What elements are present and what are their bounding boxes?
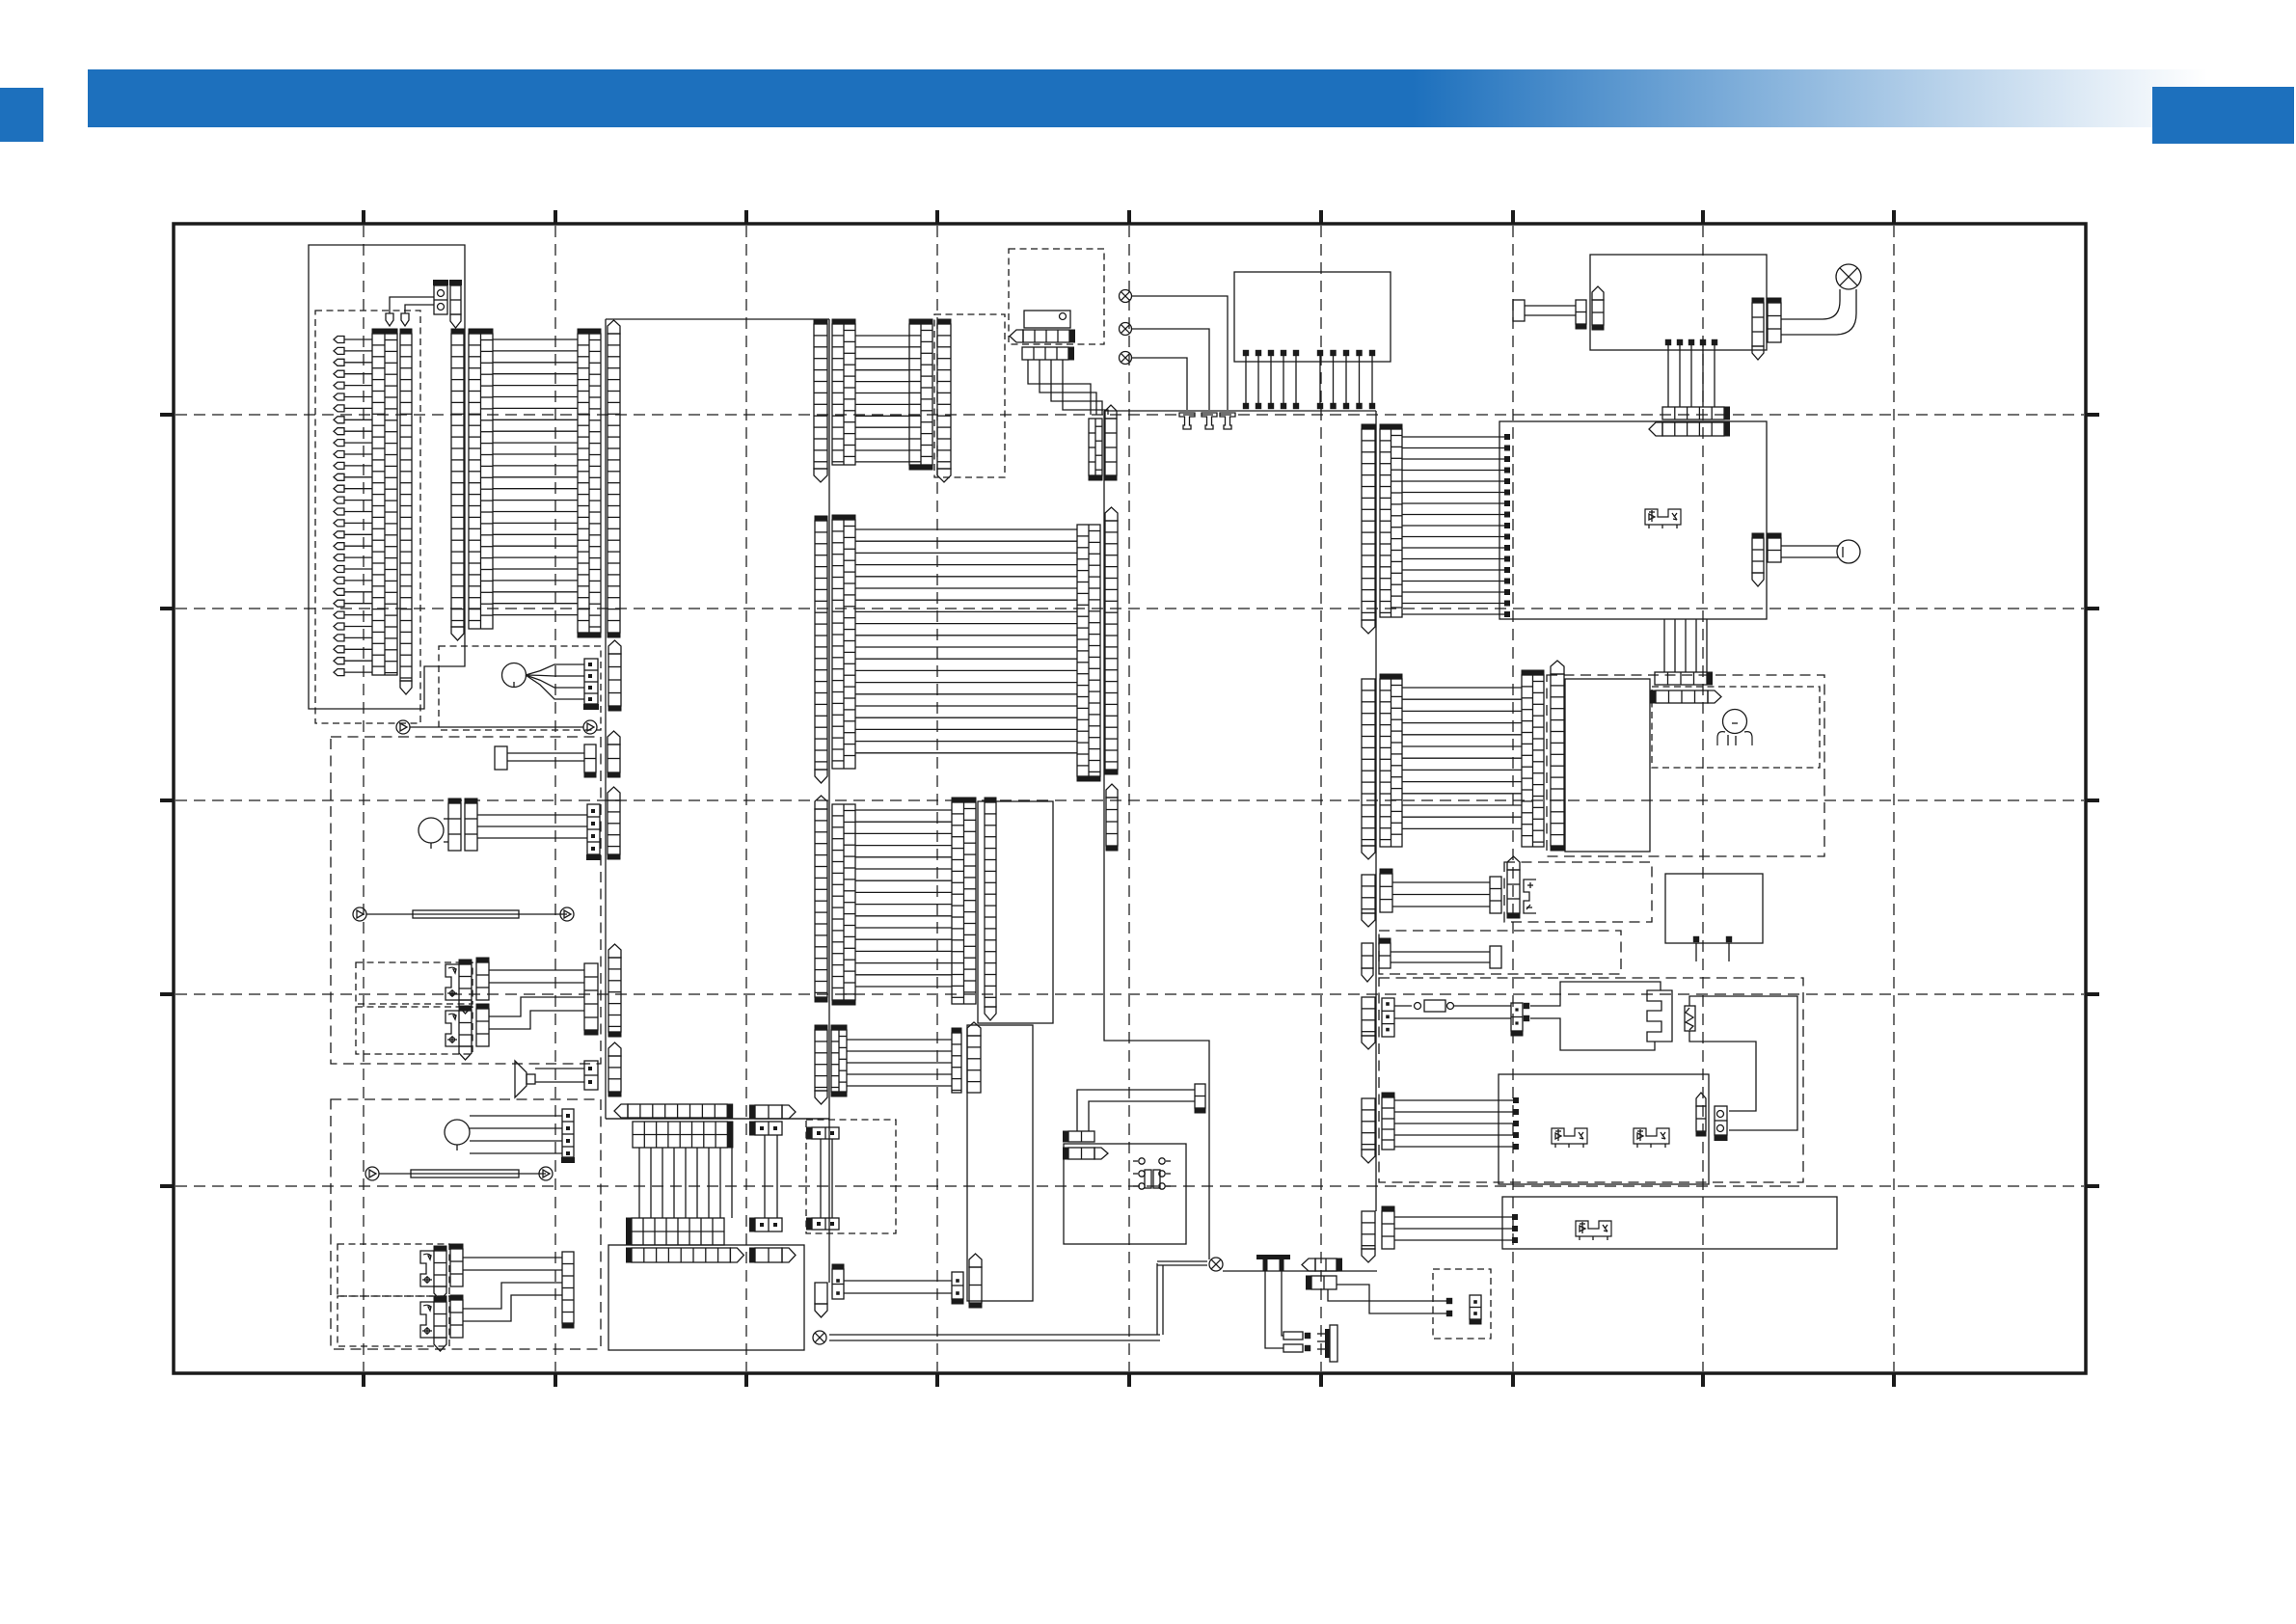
horn HN1 — [515, 1061, 527, 1097]
connector CN11 (2-col) — [832, 324, 855, 465]
connector CN25 (2-col) — [832, 520, 855, 769]
control unit U3 — [1499, 421, 1767, 619]
instrument box — [978, 801, 1053, 1023]
lamp L2 — [1120, 323, 1132, 336]
wire L3 — [1132, 358, 1187, 410]
icon relay in U3 — [1645, 509, 1681, 525]
header H9 — [755, 1105, 782, 1119]
wires U3 bottom — [1663, 619, 1665, 672]
ground bolt G3 — [1220, 413, 1235, 429]
dashed box H — [1547, 675, 1824, 856]
connector CN52 — [584, 963, 598, 1030]
connector CN32 — [815, 809, 827, 997]
connector CN59 — [562, 1252, 574, 1323]
header H17 — [1315, 1259, 1337, 1271]
control unit U2 — [1590, 255, 1767, 350]
connector CN38 — [952, 1033, 961, 1093]
connector CN43 — [608, 744, 620, 772]
lamp L7 — [813, 1331, 826, 1344]
connector CN26 (2-col) — [1077, 525, 1100, 776]
connector CN41 — [952, 1272, 963, 1299]
dashed equipment box K — [331, 1099, 601, 1349]
unit U3 left pads and wires — [1504, 434, 1510, 440]
flasher F4 — [420, 1302, 434, 1338]
header bar — [88, 69, 2296, 127]
header H6 (2-row) — [633, 1122, 727, 1148]
inline resistor — [1394, 1005, 1412, 1007]
connector CN24 — [815, 521, 827, 770]
pads N — [1446, 1298, 1452, 1304]
connector CN55 — [608, 1056, 621, 1092]
wire resistor loop b — [1689, 1031, 1756, 1111]
lamp L6 — [445, 1120, 470, 1145]
control unit U1 — [1234, 272, 1391, 362]
comb connector — [1325, 1329, 1330, 1358]
dashed box L2 — [806, 1120, 896, 1233]
header H18 — [1311, 1276, 1337, 1289]
header H15 — [1068, 1131, 1094, 1142]
lamp L3 — [1120, 352, 1132, 365]
wire CN19 to L4 b — [1781, 289, 1856, 335]
wire bundle G (20 wires) — [855, 528, 1077, 530]
connector CN28 — [1362, 679, 1375, 846]
connector CN41b — [969, 1267, 982, 1303]
knob K1 — [1837, 540, 1860, 563]
connector CN68 — [1362, 997, 1375, 1036]
wires H15 up — [1077, 1090, 1195, 1131]
connector CN27b — [1106, 798, 1118, 846]
connector CN40 — [832, 1269, 844, 1299]
ground bolt G5 — [1280, 1259, 1284, 1271]
connector CN69 — [1382, 998, 1394, 1037]
lamp L5 — [419, 818, 444, 843]
connector CN36 — [815, 1030, 827, 1091]
connector CN16 — [1576, 300, 1586, 324]
connector CN75 (3-cell) — [1382, 1211, 1394, 1249]
connector CN5 (2-col) — [469, 334, 493, 629]
connector CN12 (2-col) — [909, 324, 932, 465]
connector CN63 — [1490, 877, 1501, 913]
wire G5 down — [1282, 1271, 1283, 1336]
dashed equipment box J — [331, 737, 601, 1064]
connector CN70 — [1511, 1003, 1523, 1031]
connector CN1 strip — [450, 285, 461, 314]
connector CN71 — [1696, 1106, 1706, 1131]
connector CN58b — [450, 1300, 463, 1338]
connector CN3 — [400, 334, 412, 681]
connector CN48 — [459, 964, 472, 1000]
connector CN58 — [434, 1302, 446, 1338]
accessory box — [1064, 1144, 1186, 1244]
connector CN51 — [476, 1009, 489, 1046]
wires horn — [535, 1068, 584, 1069]
connector CN76 — [1362, 1211, 1375, 1249]
connector CN49 — [476, 962, 489, 1000]
connector CN18 — [1752, 303, 1764, 346]
dashed harness box A — [315, 311, 420, 723]
unit U4 pads and wires — [1513, 1097, 1519, 1103]
connector CN42 — [584, 744, 596, 772]
connector CN72 — [1715, 1106, 1727, 1135]
bolt B1 — [1513, 300, 1525, 321]
connector CN15 — [1105, 419, 1117, 475]
header H16 — [1068, 1148, 1094, 1159]
lamp L8 — [1209, 1258, 1223, 1271]
connector CN7 — [608, 334, 620, 633]
wire L2 — [1132, 329, 1209, 410]
connector CN53 — [608, 958, 621, 1032]
relay unit box — [1499, 1074, 1709, 1184]
gauge box — [967, 1025, 1033, 1301]
header H12 — [755, 1248, 782, 1262]
header H11 — [755, 1218, 782, 1232]
switch box SW1 — [1565, 679, 1650, 852]
connector CN19 — [1768, 303, 1781, 342]
drawing frame — [174, 224, 2086, 1373]
wires H18 right — [1328, 1289, 1446, 1301]
ground bus — [1223, 1270, 1377, 1272]
wire relay to tag 1 — [390, 297, 434, 313]
dashed box flasher F3 — [338, 1244, 449, 1296]
header H8 — [632, 1248, 730, 1262]
tag terminal T1 — [386, 313, 393, 326]
connector CN27 — [1105, 521, 1118, 770]
connector CN57 — [434, 1251, 446, 1286]
relay R2 body — [1024, 311, 1070, 328]
wire bundle A (26 wires) — [493, 338, 578, 340]
harness trunk right — [1375, 411, 1377, 1211]
connector CN74 — [1362, 1098, 1375, 1150]
connector CN30 (2-col) — [1522, 675, 1544, 847]
header H7 (2-row) — [632, 1218, 724, 1245]
motor M1 — [502, 663, 527, 688]
heater comb element — [1647, 990, 1672, 1042]
fuse FU1 — [1283, 1332, 1303, 1340]
wide control box U5 — [1502, 1197, 1837, 1249]
wire resistor loop a — [1689, 996, 1797, 1130]
connector CN45 — [465, 803, 477, 851]
wire CN19 to L4 a — [1781, 289, 1840, 319]
ground bolt G2 — [1202, 413, 1217, 429]
icon relay U4b — [1634, 1128, 1669, 1144]
ground bolt G4 — [1263, 1259, 1268, 1271]
center harness box — [606, 319, 829, 1283]
connector CN13 — [937, 324, 951, 469]
cable link C3 — [365, 1167, 379, 1180]
header H14 — [812, 1218, 839, 1230]
cable W1 riser — [1156, 1263, 1158, 1335]
wires flashers to CN52 — [489, 969, 584, 971]
cable W1 — [829, 1334, 1160, 1336]
header H1 — [1662, 407, 1724, 420]
wires relay R2 to CN14 — [1028, 360, 1091, 415]
terminal tags column (30 pins) — [334, 337, 344, 343]
wire to heater hot — [1530, 982, 1661, 1006]
lamp L4 — [1836, 264, 1861, 289]
header H10 — [755, 1122, 782, 1135]
dashed box flasher F2 — [356, 1007, 473, 1054]
wire bundle B (12 wires) — [855, 335, 909, 337]
connector CN35 — [985, 802, 996, 1007]
wire G4 down — [1265, 1271, 1283, 1348]
wire relay to tag 2 — [405, 305, 434, 313]
grid horizontal dashed lines with ticks — [176, 414, 2084, 416]
wire bundle Ib (5 wires) — [847, 1039, 952, 1041]
connector CN73 (5-cell) — [1382, 1097, 1394, 1150]
person icon — [1723, 710, 1747, 734]
flasher F3 — [420, 1251, 434, 1286]
wires O2 — [1392, 881, 1490, 883]
wire bundle I (16 wires) — [855, 809, 952, 811]
connector CN56 — [562, 1109, 574, 1157]
unit U2 pins — [1665, 339, 1671, 345]
connector CN60 — [815, 1283, 827, 1304]
icon relay U4a — [1552, 1128, 1587, 1144]
connector CN66 — [1362, 875, 1375, 913]
grid vertical dashed lines with ticks — [363, 226, 365, 1371]
sensor box O1 — [1665, 874, 1763, 943]
relay R1 block — [434, 285, 447, 314]
dashed box O2 — [1504, 862, 1652, 922]
flasher F1 — [446, 964, 459, 1000]
tag terminal T2 — [401, 313, 409, 326]
connector CN64 — [1507, 870, 1520, 913]
connector CN17 — [1592, 300, 1604, 325]
relay R2 header 2 — [1022, 347, 1068, 360]
wire to knob — [1781, 545, 1838, 547]
pads O1 — [1693, 936, 1699, 942]
flasher F2 — [446, 1011, 459, 1046]
connector CN8 — [584, 659, 598, 704]
bus riser — [1104, 411, 1209, 1259]
dashed box flasher F1 — [356, 962, 473, 1004]
cable link C1 — [396, 720, 410, 734]
connector CN37 (2-col) — [831, 1030, 847, 1092]
wires H10 to H11 — [764, 1135, 766, 1218]
cable C4 — [1391, 951, 1490, 953]
unit U5 pads and wires — [1512, 1214, 1518, 1220]
junction block JB outline — [309, 245, 465, 709]
header H13 — [812, 1127, 839, 1139]
lamp L1 — [1120, 290, 1132, 303]
connector CN22 — [1752, 538, 1764, 573]
connector CN21 (2-col) — [1380, 429, 1402, 617]
wires motor to CN8 — [526, 664, 584, 675]
connector CN67 — [1379, 943, 1391, 968]
connector CN31 — [1551, 674, 1564, 846]
left blue square — [0, 88, 43, 142]
cable W1 top — [1157, 1260, 1207, 1262]
bolt B2 — [495, 746, 507, 770]
header H2 — [1662, 422, 1724, 436]
wires flashers K — [463, 1257, 562, 1259]
connector CN66b — [1362, 943, 1373, 968]
connector CN65 (3-cell) — [1380, 874, 1392, 912]
dashed box person — [1652, 687, 1820, 768]
wire bundle H (13 wires) — [1402, 687, 1522, 689]
connector CN6 (2-col) — [578, 334, 601, 633]
connector CN20 — [1362, 429, 1375, 620]
connector CN61 — [1195, 1084, 1205, 1108]
fuse FU2 — [1283, 1344, 1303, 1352]
harness bar — [606, 1118, 829, 1120]
switch icon — [1524, 880, 1536, 913]
wires H6 to H7 — [638, 1148, 640, 1218]
header H4 — [1656, 690, 1708, 703]
connector CN50 — [459, 1011, 472, 1046]
wire L1 — [1132, 296, 1228, 410]
ground bolt G1 — [1179, 413, 1195, 429]
lighter socket — [1139, 1158, 1145, 1164]
dashed box flasher F4 — [338, 1296, 449, 1346]
dashed box O4 (big) — [1379, 978, 1803, 1182]
pads CN70 — [1524, 1003, 1529, 1009]
connector CN57b — [450, 1249, 463, 1286]
dashed box motor M1 — [439, 646, 601, 730]
connector CN44 — [448, 803, 461, 851]
wires lamp L6 — [470, 1115, 562, 1117]
connector CN29 (2-col) — [1380, 679, 1402, 847]
wire to heater ret — [1530, 1018, 1655, 1050]
connector CN54 — [584, 1061, 598, 1090]
connector CN2 (2-col ladder) — [372, 334, 397, 675]
dashed box O3 — [1379, 931, 1621, 974]
connector CN46 — [587, 804, 600, 854]
dashed box relay R2 — [1009, 249, 1104, 344]
connector CN34 (2-col) — [952, 802, 976, 1004]
icon relay U5 — [1576, 1221, 1611, 1236]
connector CN14 (2-col) — [1089, 419, 1102, 475]
connector CN39 — [967, 1036, 981, 1093]
wires H13-H14 — [820, 1139, 822, 1218]
connector CN33 (2-col) — [832, 804, 855, 1000]
header H3 — [1655, 672, 1707, 685]
bus wire — [1104, 410, 1376, 412]
connector CN9 — [608, 654, 621, 706]
right blue square — [2152, 87, 2294, 144]
fuse box FB — [608, 1245, 804, 1350]
header H5 — [628, 1104, 727, 1118]
wires CN40 to CN41 — [844, 1280, 952, 1282]
cable link C2 — [353, 907, 366, 921]
connector CN10 — [814, 324, 827, 469]
dashed box N — [1433, 1269, 1491, 1339]
unit U1 pins and wires — [1243, 350, 1249, 356]
connector CN47 — [608, 800, 620, 854]
connector CN62 — [1470, 1295, 1481, 1319]
wires lamp row — [444, 818, 448, 820]
relay R2 header — [1023, 330, 1069, 342]
resistor R4 — [1685, 1006, 1695, 1031]
connector CN4 — [451, 334, 464, 627]
connector CN23 — [1768, 538, 1781, 562]
dashed box B — [934, 314, 1005, 477]
